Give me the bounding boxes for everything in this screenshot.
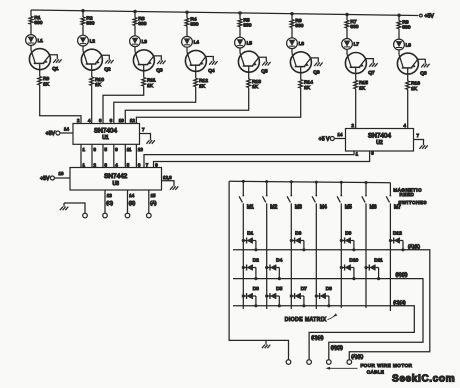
wire Q6 emitter to ground — [311, 58, 318, 63]
switch M1 magnetic reed — [242, 180, 245, 183]
wire rail to R2 col2 — [82, 11, 84, 17]
svg-text:D6: D6 — [295, 231, 301, 237]
LED L3 — [130, 36, 148, 47]
svg-text:L2: L2 — [90, 38, 96, 44]
svg-text:M6: M6 — [370, 205, 377, 211]
wire ground to motor-cable terminal — [64, 203, 85, 213]
wire R16 to U2 pin 4 — [407, 89, 409, 128]
wire Q3 base to R11 — [143, 71, 145, 78]
wire L5 to Q5 collector — [239, 48, 241, 53]
wire R8 to L8 — [398, 29, 400, 39]
svg-text:D12: D12 — [393, 231, 402, 237]
svg-text:R12: R12 — [199, 78, 208, 84]
wire rail to R1 col1 — [30, 10, 32, 16]
wire +5V top rail — [31, 10, 418, 16]
svg-text:R13: R13 — [252, 79, 261, 85]
svg-text:U1: U1 — [102, 135, 109, 141]
resistor R12 1K — [194, 78, 198, 87]
wire U1 pin 7 to ground — [140, 134, 151, 141]
svg-text:Q8: Q8 — [420, 71, 427, 77]
resistor R2 330 — [81, 17, 85, 25]
wire Q7 base to R15 — [355, 74, 357, 81]
svg-text:Q6: Q6 — [313, 69, 320, 75]
wire R13 to U1 pin 10 — [125, 88, 248, 124]
svg-text:14: 14 — [64, 127, 69, 132]
wire U3 pins 12,8 to ground — [162, 181, 175, 187]
svg-text:+5V: +5V — [40, 176, 50, 182]
resistor R15 1K — [354, 80, 358, 89]
resistor R7 330 — [345, 20, 349, 28]
svg-text:1: 1 — [83, 147, 86, 152]
svg-text:M5: M5 — [345, 205, 352, 211]
svg-text:D3: D3 — [253, 286, 259, 292]
svg-text:2: 2 — [352, 123, 355, 128]
LED L4 — [182, 36, 200, 47]
svg-text:1K: 1K — [43, 82, 50, 88]
wire +5V to U2 pin 14 — [330, 137, 334, 141]
wire Q8 base to R16 — [407, 74, 409, 81]
svg-text:L5: L5 — [247, 40, 253, 46]
svg-text:REED: REED — [400, 192, 415, 197]
wire switch M2 column — [266, 203, 268, 309]
svg-text:SN7404: SN7404 — [94, 127, 118, 134]
svg-text:M4: M4 — [320, 205, 327, 211]
LED L1 — [26, 35, 44, 46]
wire Q1 emitter to ground — [50, 55, 57, 60]
wire U1 pin 1 to U3 pin 1 — [80, 144, 82, 167]
svg-text:5: 5 — [127, 162, 130, 167]
diode D4 — [265, 258, 282, 281]
resistor R13 1K — [247, 79, 251, 88]
ground Q1 emitter — [53, 59, 61, 63]
node ground terminal — [83, 213, 88, 218]
wire U3 pin 9 to U2 pin 3 — [154, 151, 370, 168]
svg-text:1K: 1K — [199, 83, 206, 89]
wire row bus (A)(1) — [233, 250, 430, 360]
svg-text:1K: 1K — [359, 86, 366, 92]
svg-text:R14: R14 — [304, 79, 313, 85]
ground U2 pin 7 — [419, 145, 427, 149]
node matrix ground terminal — [286, 360, 291, 365]
resistor R10 1K — [90, 77, 94, 86]
wire U1 pin 3 to U3 pin 2 — [91, 144, 93, 167]
svg-text:4: 4 — [115, 162, 118, 167]
node terminal (B) — [125, 213, 130, 218]
wire rail to R8 col8 — [398, 15, 400, 21]
wire R11 to U1 pin 6 — [103, 86, 144, 123]
node terminal (A) — [147, 213, 152, 218]
node terminal (A)(1) bottom — [347, 360, 352, 365]
svg-text:D2: D2 — [253, 258, 259, 264]
svg-text:Q7: Q7 — [368, 70, 375, 76]
wire Q6 base to R14 — [300, 73, 302, 80]
svg-text:(A)(1): (A)(1) — [351, 354, 363, 359]
svg-text:SWITCHES: SWITCHES — [398, 200, 427, 205]
transistor Q7 — [345, 53, 375, 77]
svg-text:+5 V: +5 V — [319, 136, 330, 142]
svg-text:L1: L1 — [38, 38, 44, 44]
svg-text:4: 4 — [404, 123, 407, 128]
wire switch M4 column — [315, 203, 317, 309]
node rail junction col4 — [185, 11, 188, 14]
svg-text:R11: R11 — [147, 77, 156, 83]
svg-text:3: 3 — [105, 162, 108, 167]
wire row bus (C)(4) — [233, 306, 414, 360]
diode D5 — [265, 286, 282, 307]
svg-text:Q4: Q4 — [208, 68, 215, 74]
wire switch M6 column — [365, 203, 367, 308]
wire U1 pin 11 to U3 pin 5 — [124, 144, 126, 167]
wire caption arrow — [328, 315, 336, 320]
resistor R5 330 — [238, 19, 242, 27]
svg-text:13: 13 — [107, 193, 112, 198]
svg-text:D8: D8 — [326, 286, 332, 292]
svg-text:(C): (C) — [106, 200, 113, 206]
svg-text:+5V: +5V — [46, 131, 56, 137]
ground Q3 emitter — [157, 61, 165, 65]
node rail junction col7 — [345, 13, 348, 16]
wire R12 to U1 pin 8 — [114, 87, 196, 124]
svg-text:9: 9 — [115, 147, 118, 152]
wire rail to R4 col4 — [186, 12, 188, 18]
svg-text:12: 12 — [130, 118, 135, 123]
resistor R4 330 — [185, 18, 189, 26]
ground Q5 emitter — [262, 62, 270, 66]
wire U3 pin 15 to terminal (A) — [148, 190, 150, 213]
svg-text:6: 6 — [99, 118, 102, 123]
ground Q2 emitter — [105, 60, 113, 64]
node +5V terminal — [420, 14, 423, 17]
wire reed switch common bus — [229, 181, 390, 182]
svg-text:4: 4 — [88, 118, 91, 123]
diode D8 — [315, 286, 332, 307]
wire rail to R5 col5 — [239, 13, 241, 19]
switch M3 magnetic reed — [290, 180, 293, 183]
svg-text:D9: D9 — [345, 231, 351, 237]
diode D2 — [242, 258, 259, 281]
LED L7 — [342, 39, 360, 50]
wire Q4 emitter to ground — [206, 57, 213, 62]
svg-text:330: 330 — [34, 20, 42, 26]
svg-text:Q2: Q2 — [104, 67, 111, 73]
transistor Q1 — [29, 49, 59, 73]
wire +5V to U1 pin 14 — [56, 131, 60, 135]
svg-text:D11: D11 — [374, 258, 383, 264]
ground motor cable — [60, 207, 68, 211]
svg-text:L7: L7 — [354, 42, 360, 48]
LED L5 — [235, 37, 253, 48]
svg-text:330: 330 — [350, 24, 358, 30]
wire rail to R7 col7 — [346, 15, 348, 21]
svg-text:R16: R16 — [411, 81, 420, 87]
svg-text:15: 15 — [151, 193, 156, 198]
node terminal (B)(2) bottom — [327, 360, 332, 365]
wire U1 pin 9 to U3 pin 4 — [113, 144, 115, 167]
svg-text:14: 14 — [338, 132, 343, 137]
resistor R14 1K — [299, 80, 303, 89]
node rail junction col2 — [81, 9, 84, 12]
diode D1 — [242, 231, 258, 252]
svg-text:1K: 1K — [147, 83, 154, 89]
svg-text:Q1: Q1 — [52, 66, 59, 72]
svg-text:6: 6 — [138, 162, 141, 167]
svg-text:(A): (A) — [150, 200, 157, 206]
diode D9 — [340, 231, 356, 252]
wire Q4 base to R12 — [195, 71, 197, 78]
op-amp U3 SN7442 BCD decoder — [70, 168, 162, 191]
wire R3 to L3 — [134, 25, 136, 35]
ground Q7 emitter — [369, 63, 377, 67]
svg-text:3: 3 — [94, 147, 97, 152]
svg-text:M2: M2 — [270, 205, 277, 211]
svg-text:(C)(4): (C)(4) — [311, 335, 324, 340]
diode D6 — [290, 231, 306, 252]
wire R5 to L5 — [239, 27, 241, 37]
transistor Q3 — [133, 50, 163, 74]
wire Q5 emitter to ground — [259, 57, 266, 62]
ground Q8 emitter — [421, 64, 429, 68]
svg-text:(A)(1): (A)(1) — [408, 244, 420, 249]
switch M5 magnetic reed — [340, 181, 343, 184]
svg-text:1K: 1K — [252, 84, 259, 90]
wire L4 to Q4 collector — [186, 47, 188, 52]
wire U1 pin 5 to U3 pin 3 — [102, 144, 104, 167]
switch M6 magnetic reed — [365, 181, 368, 184]
LED L8 — [394, 39, 412, 50]
node rail junction col5 — [238, 11, 241, 14]
svg-text:DIODE MATRIX: DIODE MATRIX — [285, 317, 327, 323]
svg-text:U2: U2 — [376, 140, 383, 146]
svg-text:13: 13 — [138, 147, 143, 152]
svg-text:330: 330 — [190, 22, 198, 28]
svg-text:SeekIC.com: SeekIC.com — [392, 373, 455, 384]
svg-text:10: 10 — [119, 118, 124, 123]
svg-text:5: 5 — [105, 147, 108, 152]
ground U1 pin 7 — [146, 140, 154, 144]
transistor Q4 — [185, 50, 215, 74]
wire R7 to L7 — [346, 28, 348, 38]
svg-text:SN7442: SN7442 — [104, 173, 128, 180]
svg-text:16: 16 — [59, 171, 64, 176]
wire switch M5 column — [340, 203, 342, 308]
wire Q5 base to R13 — [248, 72, 250, 79]
svg-text:L4: L4 — [194, 40, 200, 46]
svg-text:2: 2 — [94, 162, 97, 167]
wire R4 to L4 — [186, 26, 188, 36]
wire rail to R6 col6 — [291, 14, 293, 20]
svg-text:1K: 1K — [95, 82, 102, 88]
switch M4 magnetic reed — [315, 181, 318, 184]
svg-text:D7: D7 — [301, 286, 307, 292]
resistor R6 330 — [290, 20, 294, 28]
resistor R16 1K — [406, 81, 410, 90]
svg-text:+5V: +5V — [425, 14, 435, 20]
svg-text:1: 1 — [83, 162, 86, 167]
svg-text:L3: L3 — [142, 39, 148, 45]
svg-text:D1: D1 — [247, 231, 253, 237]
wire R6 to L6 — [291, 27, 293, 37]
wire R9 to U1 pin 2 — [40, 85, 81, 124]
svg-text:SN7404: SN7404 — [368, 132, 392, 139]
wire switch M3 column — [290, 203, 292, 309]
svg-text:R9: R9 — [43, 76, 49, 82]
wire U1 pin 13 to U3 pin 6 — [135, 144, 137, 167]
op-amp U1 SN7404 hex inverter — [73, 124, 140, 145]
wire +5V to U3 pin 16 — [50, 176, 54, 180]
resistor R3 330 — [133, 18, 137, 26]
wire U3 pin 14 to terminal (B) — [127, 190, 129, 213]
svg-text:(C)(4): (C)(4) — [393, 300, 406, 305]
wire Q8 emitter to ground — [418, 59, 425, 64]
resistor R9 1K — [38, 76, 42, 85]
diode D10 — [340, 258, 359, 281]
wire switch M7 column — [389, 203, 391, 311]
wire R10 to U1 pin 4 — [91, 86, 93, 124]
svg-text:2: 2 — [77, 118, 80, 123]
wire rail to R3 col3 — [134, 12, 136, 18]
wire matrix common return (left) — [229, 181, 288, 360]
node rail junction col6 — [290, 12, 293, 15]
svg-text:1K: 1K — [304, 85, 311, 91]
ground Q6 emitter — [314, 63, 322, 67]
svg-text:CABLE: CABLE — [367, 369, 385, 374]
wire Q7 emitter to ground — [366, 59, 373, 64]
svg-text:330: 330 — [243, 23, 251, 29]
wire row bus (B)(2) — [233, 279, 423, 360]
op-amp U2 SN7404 hex inverter — [346, 129, 414, 152]
svg-text:14: 14 — [129, 193, 134, 198]
transistor Q6 — [290, 52, 320, 76]
wire Q1 base to R9 — [39, 70, 41, 77]
svg-text:L8: L8 — [406, 42, 412, 48]
svg-text:1: 1 — [356, 151, 359, 156]
wire R15 to U2 pin 2 — [355, 89, 357, 129]
wire L7 to Q7 collector — [346, 49, 348, 54]
wire Q2 emitter to ground — [102, 55, 109, 60]
svg-text:M7: M7 — [394, 205, 401, 211]
wire Q2 base to R10 — [91, 70, 93, 77]
node terminal (C)(4) bottom — [307, 360, 312, 365]
diode D12 — [389, 231, 405, 252]
wire U3 pin 7 to U2 pin 1 — [144, 151, 354, 168]
transistor Q8 — [397, 53, 427, 77]
svg-text:330: 330 — [402, 24, 410, 30]
svg-text:M1: M1 — [247, 205, 254, 211]
wire R2 to L2 — [82, 25, 84, 35]
svg-text:9: 9 — [155, 162, 158, 167]
svg-text:330: 330 — [86, 21, 94, 27]
svg-text:1K: 1K — [411, 86, 418, 92]
wire caption arrow motor cable — [329, 367, 358, 369]
node terminal (C) — [103, 213, 108, 218]
svg-text:330: 330 — [295, 23, 303, 29]
wire U3 pin 13 to terminal (C) — [104, 190, 106, 213]
node rail junction col8 — [397, 14, 400, 17]
wire L6 to Q6 collector — [291, 49, 293, 54]
ground Q4 emitter — [209, 61, 217, 65]
svg-text:D10: D10 — [349, 258, 358, 264]
transistor Q2 — [81, 49, 111, 72]
svg-text:Q5: Q5 — [261, 69, 268, 75]
switch M2 magnetic reed — [265, 180, 268, 183]
svg-text:7: 7 — [146, 162, 149, 167]
wire U2 pin 7 to ground — [414, 140, 424, 146]
svg-text:R15: R15 — [359, 80, 368, 86]
node rail junction col3 — [133, 10, 136, 13]
svg-text:8: 8 — [110, 118, 113, 123]
wire L1 to Q1 collector — [30, 45, 32, 50]
ground matrix return — [265, 340, 267, 344]
svg-text:M3: M3 — [295, 205, 302, 211]
wire L3 to Q3 collector — [134, 47, 136, 52]
svg-text:R10: R10 — [95, 77, 104, 83]
svg-text:330: 330 — [138, 21, 146, 27]
resistor R11 1K — [142, 78, 146, 87]
LED L2 — [78, 35, 96, 46]
diode D7 — [290, 286, 307, 307]
resistor R8 330 — [397, 21, 401, 29]
svg-text:FOUR WIRE MOTOR: FOUR WIRE MOTOR — [361, 363, 413, 368]
svg-text:(B)(2): (B)(2) — [396, 272, 408, 277]
svg-text:Q3: Q3 — [156, 67, 163, 73]
LED L6 — [287, 38, 305, 49]
svg-text:11: 11 — [127, 147, 132, 152]
wire L2 to Q2 collector — [82, 46, 84, 51]
diode D11 — [364, 258, 383, 281]
wire R14 to U1 pin 12 — [136, 88, 300, 123]
svg-text:D4: D4 — [276, 258, 282, 264]
svg-text:7: 7 — [142, 127, 145, 132]
svg-text:(B): (B) — [129, 200, 136, 206]
svg-text:L6: L6 — [299, 41, 305, 47]
svg-text:12,8: 12,8 — [163, 175, 172, 180]
transistor Q5 — [238, 51, 268, 74]
wire R1 to L1 — [30, 24, 32, 34]
svg-text:D5: D5 — [276, 286, 282, 292]
switch M7 magnetic reed — [389, 183, 391, 196]
ground U3 pins 12,8 — [170, 186, 178, 190]
diode D3 — [242, 286, 259, 307]
svg-text:(B)(2): (B)(2) — [331, 345, 343, 350]
wire Q3 emitter to ground — [154, 56, 161, 61]
svg-text:U3: U3 — [112, 181, 119, 187]
resistor R1 330 — [29, 16, 33, 24]
svg-text:7: 7 — [417, 133, 420, 138]
wire L8 to Q8 collector — [398, 50, 400, 55]
wire switch M1 column — [242, 203, 244, 309]
